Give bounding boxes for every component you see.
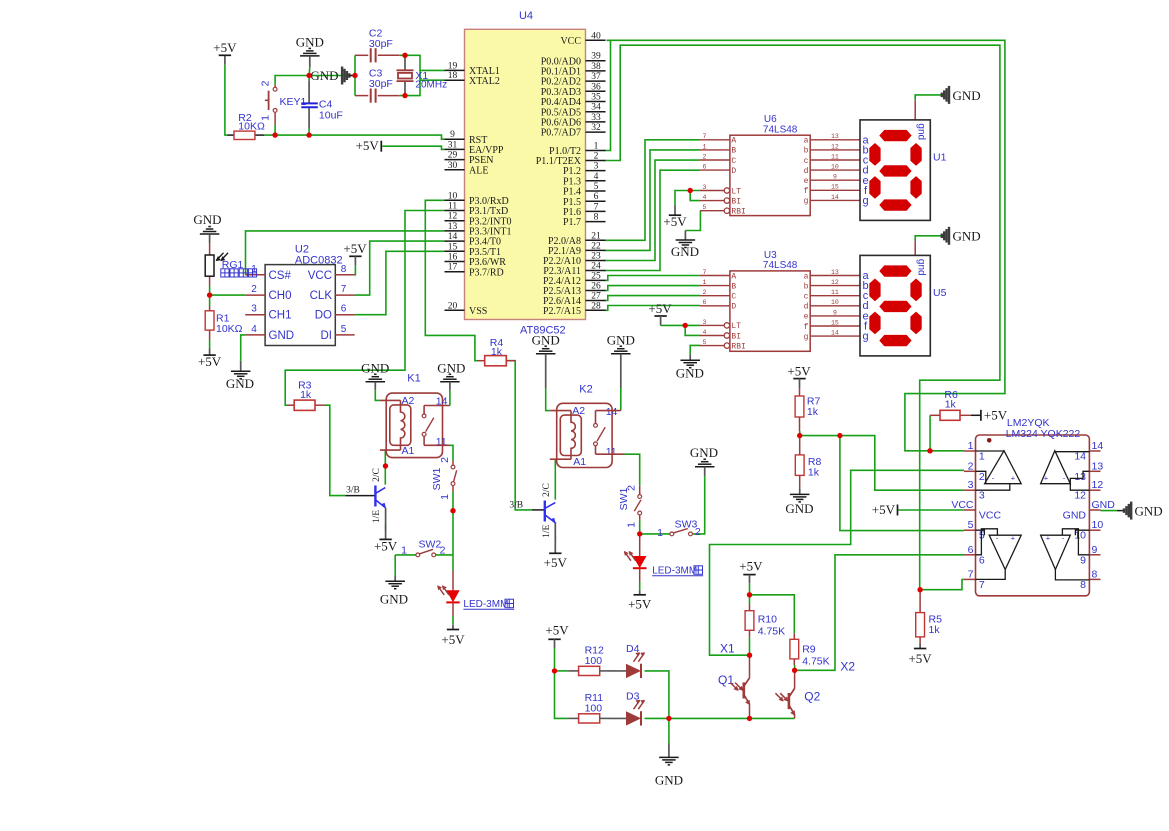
svg-text:3: 3 [251,304,257,315]
svg-text:3/B: 3/B [509,501,523,511]
svg-text:13: 13 [831,269,839,276]
svg-text:13: 13 [1092,460,1104,472]
svg-text:+: + [1011,534,1016,543]
svg-text:74LS48: 74LS48 [763,124,798,135]
svg-text:U4: U4 [519,10,533,22]
svg-text:+5V: +5V [787,363,811,378]
svg-text:6: 6 [341,304,347,315]
svg-text:1: 1 [439,494,451,500]
svg-text:B: B [731,282,736,291]
svg-text:GND: GND [1063,510,1087,522]
svg-text:7: 7 [703,269,707,276]
svg-text:14: 14 [606,406,618,418]
svg-text:4: 4 [703,194,707,201]
svg-text:GND: GND [296,35,324,50]
svg-text:+5V: +5V [545,622,569,637]
svg-text:c: c [804,293,809,302]
svg-text:11: 11 [448,202,457,212]
svg-text:12: 12 [1092,479,1104,491]
svg-text:c: c [804,157,809,166]
svg-text:GND: GND [1135,504,1163,519]
svg-text:35: 35 [591,93,601,103]
svg-text:12: 12 [831,279,839,286]
svg-text:GND: GND [953,229,981,244]
svg-text:8: 8 [594,213,599,223]
svg-text:+5V: +5V [544,555,568,570]
svg-text:7: 7 [703,133,707,140]
svg-text:+5V: +5V [356,138,380,153]
svg-text:10: 10 [1092,519,1104,531]
svg-text:CH1: CH1 [269,310,292,322]
svg-text:A1: A1 [402,445,415,457]
svg-text:6: 6 [703,299,707,306]
svg-text:CS#: CS# [269,270,292,282]
svg-text:7: 7 [594,202,599,212]
svg-text:10KΩ: 10KΩ [216,323,243,335]
svg-text:2: 2 [703,153,707,160]
svg-text:2: 2 [703,289,707,296]
svg-text:g: g [804,197,809,206]
svg-text:11: 11 [831,289,839,296]
svg-text:GND: GND [690,445,718,460]
svg-text:10: 10 [448,191,458,201]
svg-text:36: 36 [591,82,601,92]
svg-text:A2: A2 [402,395,415,407]
svg-text:b: b [804,282,809,291]
svg-text:+: + [1046,534,1051,543]
svg-text:10: 10 [831,164,839,171]
svg-text:12: 12 [831,143,839,150]
svg-text:ALE: ALE [469,165,488,176]
svg-text:14: 14 [448,232,458,242]
svg-text:14: 14 [831,194,839,201]
svg-text:SW1: SW1 [431,467,443,490]
svg-text:LT: LT [731,187,741,196]
svg-text:10: 10 [1074,530,1086,542]
svg-text:+5V: +5V [628,596,652,611]
svg-text:8: 8 [341,264,347,275]
svg-text:+: + [1044,474,1049,483]
svg-text:X2: X2 [840,660,855,674]
svg-text:+5V: +5V [374,539,398,554]
svg-text:30pF: 30pF [369,78,393,90]
svg-text:23: 23 [591,252,601,262]
svg-text:BI: BI [731,332,741,341]
svg-text:GND: GND [607,332,635,347]
svg-text:CH0: CH0 [269,290,292,302]
svg-text:8: 8 [1080,579,1086,591]
svg-text:13: 13 [831,133,839,140]
svg-text:LED-3MM: LED-3MM [463,599,508,610]
svg-text:XTAL2: XTAL2 [469,76,500,87]
svg-text:e: e [804,177,809,186]
svg-text:P0.7/AD7: P0.7/AD7 [541,128,581,139]
svg-text:5: 5 [341,324,347,335]
svg-text:1: 1 [401,545,407,557]
svg-text:2: 2 [594,152,599,162]
svg-text:+5V: +5V [441,632,465,647]
svg-text:LT: LT [731,322,741,331]
svg-text:5: 5 [703,339,707,346]
svg-text:2/C: 2/C [542,483,552,497]
svg-text:d: d [804,167,809,176]
svg-text:31: 31 [448,140,458,150]
svg-text:1: 1 [594,142,599,152]
svg-text:X1: X1 [720,642,735,656]
svg-text:8: 8 [1092,568,1098,580]
svg-text:1: 1 [979,451,985,463]
svg-text:11: 11 [606,446,617,458]
svg-text:7: 7 [341,284,347,295]
svg-text:P3.7/RD: P3.7/RD [469,267,504,278]
svg-text:15: 15 [831,319,839,326]
svg-text:33: 33 [591,113,601,123]
svg-text:1/E: 1/E [372,510,382,523]
svg-text:GND: GND [655,773,683,788]
svg-text:34: 34 [591,103,601,113]
svg-text:4.75K: 4.75K [758,625,785,637]
svg-text:12: 12 [448,212,458,222]
svg-text:16: 16 [448,253,458,263]
svg-text:5: 5 [594,182,599,192]
svg-text:4.75K: 4.75K [802,655,829,667]
svg-text:26: 26 [591,282,601,292]
svg-text:A1: A1 [573,456,586,468]
svg-text:29: 29 [448,151,458,161]
svg-text:GND: GND [226,376,254,391]
svg-text:DI: DI [321,330,333,342]
svg-text:GND: GND [380,592,408,607]
svg-text:B: B [731,147,736,156]
svg-text:+5V: +5V [984,407,1008,422]
svg-text:4: 4 [251,324,257,335]
svg-text:2: 2 [251,284,257,295]
svg-text:22: 22 [591,241,601,251]
svg-text:18: 18 [448,71,458,81]
svg-text:37: 37 [591,72,601,82]
svg-text:f: f [804,323,809,332]
svg-text:GND: GND [1092,499,1116,511]
svg-text:100: 100 [585,703,603,715]
svg-text:20MHz: 20MHz [415,79,447,90]
svg-text:Q2: Q2 [804,690,820,704]
svg-text:VCC: VCC [560,36,581,47]
svg-text:30pF: 30pF [369,38,393,50]
svg-text:e: e [804,313,809,322]
svg-text:+5V: +5V [908,651,932,666]
svg-text:KEY1: KEY1 [280,96,307,108]
svg-text:VCC: VCC [979,510,1002,522]
svg-text:1: 1 [968,440,974,452]
svg-text:1/E: 1/E [542,525,552,538]
svg-text:+5V: +5V [213,40,237,55]
svg-text:9: 9 [833,309,837,316]
svg-text:LED-3MM: LED-3MM [652,565,697,576]
svg-text:GND: GND [671,244,699,259]
svg-text:GND: GND [193,212,221,227]
svg-text:2: 2 [440,545,446,557]
svg-text:20: 20 [448,301,458,311]
svg-text:14: 14 [1092,440,1104,452]
svg-text:GND: GND [310,68,338,83]
svg-text:D: D [731,167,736,176]
svg-text:VCC: VCC [951,499,974,511]
svg-text:15: 15 [831,184,839,191]
svg-text:1k: 1k [929,624,941,636]
svg-text:3/B: 3/B [346,486,360,496]
svg-text:19: 19 [448,61,458,71]
svg-text:U1: U1 [933,151,947,163]
svg-text:2: 2 [968,460,974,472]
svg-text:4: 4 [703,329,707,336]
svg-text:10: 10 [831,299,839,306]
svg-text:GND: GND [361,360,389,375]
svg-text:30: 30 [448,161,458,171]
svg-text:9: 9 [1080,554,1086,566]
svg-text:2: 2 [695,526,701,538]
svg-text:21: 21 [591,231,601,241]
svg-text:1k: 1k [300,389,312,401]
svg-text:1: 1 [703,279,707,286]
svg-text:10uF: 10uF [319,109,343,121]
svg-text:9: 9 [833,174,837,181]
svg-text:g: g [804,333,809,342]
svg-text:SW2: SW2 [419,539,442,551]
svg-text:A: A [731,272,736,281]
svg-text:+5V: +5V [872,502,896,517]
svg-text:f: f [804,187,809,196]
svg-text:SW1: SW1 [618,487,630,510]
svg-text:C: C [731,157,736,166]
svg-text:A2: A2 [572,405,585,417]
svg-text:38: 38 [591,62,601,72]
svg-text:R9: R9 [802,643,816,655]
svg-text:39: 39 [591,52,601,62]
svg-text:25: 25 [591,271,601,281]
svg-text:+5V: +5V [663,214,687,229]
svg-text:a: a [804,272,809,281]
svg-text:GND: GND [953,88,981,103]
svg-text:1: 1 [259,115,271,121]
svg-text:10KΩ: 10KΩ [238,120,265,132]
svg-text:27: 27 [591,292,601,302]
svg-text:2: 2 [259,80,271,86]
svg-text:U5: U5 [933,287,947,299]
svg-text:9: 9 [1092,544,1098,556]
svg-text:+5V: +5V [648,301,672,316]
svg-text:5: 5 [703,204,707,211]
svg-text:1: 1 [657,527,663,539]
svg-text:1k: 1k [807,406,819,418]
svg-text:RBI: RBI [731,342,745,351]
svg-text:K2: K2 [579,384,592,396]
svg-text:g: g [862,195,868,207]
svg-text:3: 3 [594,162,599,172]
svg-text:9: 9 [450,130,455,140]
svg-text:7: 7 [968,568,974,580]
svg-text:11: 11 [831,153,839,160]
svg-text:3: 3 [968,479,974,491]
svg-text:74LS48: 74LS48 [763,260,798,271]
svg-text:3: 3 [979,490,985,502]
svg-text:VCC: VCC [308,270,332,282]
svg-text:32: 32 [591,123,601,133]
svg-text:b: b [804,147,809,156]
svg-text:4: 4 [594,172,599,182]
svg-text:1k: 1k [808,466,820,478]
svg-text:12: 12 [1074,490,1086,502]
svg-text:RBI: RBI [731,208,745,217]
svg-text:13: 13 [1074,471,1086,483]
svg-text:3: 3 [703,319,707,326]
svg-text:D: D [731,303,736,312]
svg-text:+5V: +5V [198,354,222,369]
svg-text:28: 28 [591,301,601,311]
svg-text:1: 1 [626,522,638,528]
svg-text:6: 6 [979,554,985,566]
svg-text:5: 5 [968,519,974,531]
svg-text:3: 3 [703,184,707,191]
svg-text:1: 1 [703,143,707,150]
svg-text:13: 13 [448,222,458,232]
svg-text:C: C [731,293,736,302]
svg-text:1k: 1k [945,399,957,411]
svg-text:7: 7 [979,579,985,591]
svg-text:a: a [804,137,809,146]
svg-text:P2.7/A15: P2.7/A15 [543,306,581,317]
svg-text:2: 2 [439,457,451,463]
svg-text:BI: BI [731,197,741,206]
svg-text:A: A [731,137,736,146]
svg-text:1k: 1k [491,346,503,358]
svg-text:6: 6 [703,164,707,171]
svg-text:ADC0832: ADC0832 [295,254,343,266]
svg-text:+5V: +5V [343,241,367,256]
svg-text:d: d [804,303,809,312]
svg-text:DO: DO [315,310,332,322]
svg-text:2: 2 [979,471,985,483]
svg-text:24: 24 [591,262,601,272]
svg-text:GND: GND [269,330,295,342]
svg-text:6: 6 [594,192,599,202]
svg-text:g: g [862,331,868,343]
svg-text:GND: GND [676,366,704,381]
svg-text:15: 15 [448,242,458,252]
svg-text:VSS: VSS [469,306,487,317]
svg-text:2/C: 2/C [372,468,382,482]
svg-text:gnd: gnd [916,259,927,276]
svg-text:14: 14 [831,330,839,337]
svg-text:gnd: gnd [916,123,927,140]
svg-text:LM324 YQK222: LM324 YQK222 [1006,428,1081,440]
svg-text:P1.7: P1.7 [563,217,581,228]
svg-text:GND: GND [437,360,465,375]
svg-text:100: 100 [585,655,603,667]
svg-text:40: 40 [591,31,601,41]
svg-text:K1: K1 [407,373,420,385]
svg-text:GND: GND [785,501,813,516]
svg-text:R10: R10 [758,613,777,625]
svg-text:+5V: +5V [739,559,763,574]
svg-text:6: 6 [968,544,974,556]
svg-text:CLK: CLK [310,290,333,302]
svg-text:17: 17 [448,263,458,273]
svg-text:+: + [1011,474,1016,483]
svg-text:AT89C52: AT89C52 [520,325,566,337]
